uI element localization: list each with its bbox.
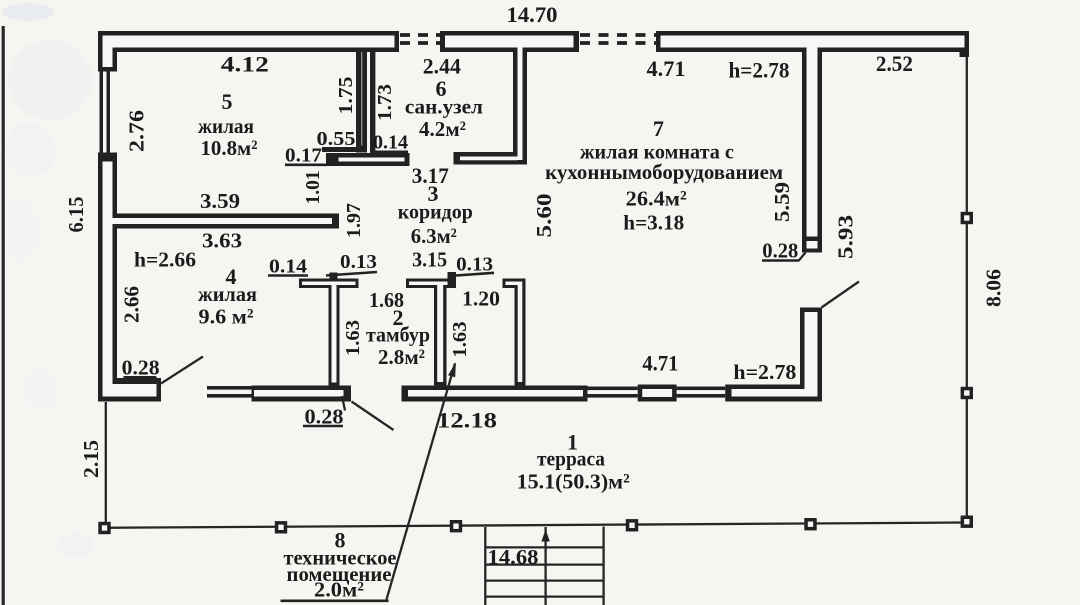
post square bottom 3 <box>450 520 462 532</box>
core: san.uzel right wall <box>518 48 523 161</box>
svg-text:8.06: 8.06 <box>982 269 1006 307</box>
core: right upper cap square <box>807 241 818 249</box>
wall: bottom piece entrance-to-window2 <box>402 386 588 402</box>
wall: left window sill bottom <box>98 153 117 158</box>
terrace: left edge <box>105 402 107 528</box>
wall: tambur right stem <box>434 288 447 386</box>
stairs: up arrow <box>541 530 549 542</box>
svg-text:0.14: 0.14 <box>373 132 408 154</box>
core: tambur right stem <box>437 285 443 382</box>
wall: 0.55 extent line <box>322 147 356 152</box>
underline 0.28 room7 <box>762 259 800 262</box>
svg-text:3.15: 3.15 <box>412 248 447 272</box>
wall: san.uzel bottom-left <box>326 153 410 166</box>
svg-text:сан.узел: сан.узел <box>405 95 483 119</box>
window: left wall glazing outer line <box>100 72 104 153</box>
svg-text:2.0м²: 2.0м² <box>314 578 364 602</box>
svg-text:10.8м²: 10.8м² <box>201 136 258 160</box>
svg-text:h=2.78: h=2.78 <box>729 58 790 83</box>
window: bottom window 2 line b <box>588 394 638 398</box>
scan blue smudge top-left <box>2 3 93 557</box>
wall: left lower <box>98 157 117 402</box>
svg-text:0.55: 0.55 <box>317 128 356 150</box>
post square bottom 2 <box>275 521 287 533</box>
core: right lower wall <box>805 312 818 397</box>
svg-text:5: 5 <box>222 89 233 114</box>
svg-text:0.14: 0.14 <box>269 256 307 278</box>
svg-text:1.01: 1.01 <box>302 171 324 205</box>
svg-text:0.17: 0.17 <box>285 145 322 167</box>
wall: room7 L horizontal bar <box>503 279 526 289</box>
wall: tambur T-bar 2 <box>406 279 456 289</box>
underline 0.14 left <box>268 274 308 277</box>
svg-text:h=3.18: h=3.18 <box>623 211 684 235</box>
svg-text:1.73: 1.73 <box>374 84 396 121</box>
svg-text:14.68: 14.68 <box>488 545 539 569</box>
door swing: room 7 to terrace <box>822 282 860 308</box>
post square bottom 4 <box>626 519 638 531</box>
core: san.uzel bottom-left <box>339 158 405 162</box>
core: san.uzel bottom-right <box>460 157 518 161</box>
post square cores <box>102 525 107 530</box>
svg-text:2.15: 2.15 <box>79 440 103 478</box>
svg-text:0.13: 0.13 <box>340 251 377 273</box>
door swing: entrance <box>352 402 394 431</box>
svg-text:1.63: 1.63 <box>342 320 364 356</box>
svg-text:14.70: 14.70 <box>507 2 558 27</box>
wall: left upper <box>98 31 117 72</box>
svg-text:0.28: 0.28 <box>305 405 344 429</box>
stairs: right edge <box>602 527 604 605</box>
underline 0.13 a <box>326 272 377 276</box>
svg-text:тамбур: тамбур <box>366 323 430 347</box>
core: divider room5/4 <box>113 218 333 224</box>
window: top dashed opening 2 row b <box>580 41 656 45</box>
window: bottom window 1 line b <box>207 394 252 398</box>
svg-text:6.3м²: 6.3м² <box>411 224 457 248</box>
pointer: tick 0.28 room7 <box>799 253 806 261</box>
wall: partition line C (san.uzel side) <box>370 48 375 158</box>
stairs: center rail <box>544 527 546 605</box>
svg-text:h=2.66: h=2.66 <box>134 248 196 272</box>
wall: divider room5/room4 <box>113 214 340 229</box>
svg-text:коридор: коридор <box>398 200 473 224</box>
core: room7 L stem <box>518 285 523 382</box>
terrace: bottom edge <box>105 523 968 528</box>
terrace: right edge <box>966 56 968 523</box>
pointer: tech room arrowhead <box>448 362 456 377</box>
wall: san.uzel right (to room 7) <box>513 48 527 165</box>
stairs: step 1 <box>485 546 603 548</box>
window: top dashed opening 2 row a <box>580 33 656 37</box>
svg-text:кухоннымоборудованием: кухоннымоборудованием <box>545 160 783 184</box>
underline 2.0m2 <box>281 599 389 602</box>
wall: tambur left stem <box>329 288 340 386</box>
post square corner <box>961 516 973 528</box>
wall: bottom piece left of entrance <box>252 386 352 402</box>
svg-text:5.60: 5.60 <box>532 194 556 238</box>
svg-text:4.2м²: 4.2м² <box>419 117 466 141</box>
door swing: room 4 <box>161 357 203 384</box>
svg-text:0.13: 0.13 <box>456 254 493 276</box>
svg-text:2.52: 2.52 <box>876 51 913 76</box>
svg-text:7: 7 <box>653 116 664 141</box>
svg-text:6.15: 6.15 <box>64 197 88 233</box>
wall: san.uzel bottom-right <box>454 152 528 165</box>
rotated labels <box>64 77 1006 479</box>
wall: top piece 2 (san.uzel) <box>440 31 579 52</box>
window: bottom window 3 line b <box>677 394 726 398</box>
svg-text:2.8м²: 2.8м² <box>378 345 425 369</box>
wall: partition bottom cap <box>356 146 367 153</box>
svg-text:2.44: 2.44 <box>423 54 461 79</box>
svg-text:4.71: 4.71 <box>647 56 686 81</box>
wall: bottom piece right <box>725 385 822 402</box>
wall: partition line A (room5 side) <box>356 48 362 153</box>
wall: tambur T-bar 1 <box>299 279 359 289</box>
wall: tambur bar2 top square <box>448 272 457 279</box>
wall: room4 bottom piece <box>98 378 161 402</box>
wall: room7 L stem <box>515 288 526 386</box>
wall: left window sill top <box>98 67 117 72</box>
wall: bottom pillar <box>638 385 677 402</box>
svg-text:жилая: жилая <box>198 282 257 306</box>
wall: top piece 1 (room 5) <box>98 31 399 52</box>
core: room7 L bar <box>506 282 523 286</box>
window: bottom window 3 line a <box>677 387 726 391</box>
svg-text:жилая: жилая <box>198 114 254 138</box>
core: bottom piece right <box>732 389 818 397</box>
wall: partition line B <box>362 48 367 153</box>
wall: top right end stub <box>960 52 970 57</box>
stairs: step 2 <box>485 563 603 565</box>
core: tambur bar1 <box>302 282 356 286</box>
pointer: tech room long diagonal <box>387 364 456 600</box>
svg-text:3.59: 3.59 <box>200 189 240 213</box>
wall: right lower <box>800 308 822 402</box>
window: top dashed opening 1 row a <box>400 33 440 37</box>
svg-text:1.20: 1.20 <box>462 287 500 311</box>
core: top piece 2 <box>445 36 574 48</box>
svg-text:5.59: 5.59 <box>770 182 794 222</box>
svg-text:12.18: 12.18 <box>437 408 497 433</box>
underline 0.14 top <box>372 151 408 154</box>
core: tambur left stem <box>332 285 337 383</box>
underline 0.28 room4 <box>124 376 157 379</box>
window: left wall glazing inner line <box>107 72 111 153</box>
wall: right upper hanging <box>802 48 822 253</box>
svg-text:15.1(50.3)м²: 15.1(50.3)м² <box>517 470 630 494</box>
svg-text:4.71: 4.71 <box>642 351 678 376</box>
svg-text:1.75: 1.75 <box>335 77 357 115</box>
core: tambur bar2 <box>409 282 448 286</box>
wall: tambur bar1 top square <box>330 273 338 279</box>
post square bottom 1 <box>98 522 110 534</box>
pointer: tick 0.28 entrance <box>342 396 345 411</box>
core: left wall lower <box>103 162 113 397</box>
window: top dashed opening 1 row b <box>400 41 440 45</box>
svg-text:0.28: 0.28 <box>762 239 798 263</box>
svg-text:2.66: 2.66 <box>120 286 144 323</box>
svg-text:26.4м²: 26.4м² <box>626 187 687 211</box>
post square right 2 <box>961 387 973 399</box>
core: top piece 1 <box>103 36 395 48</box>
core: bottom piece entrance-to-window2 <box>408 390 583 397</box>
svg-text:3.63: 3.63 <box>202 229 242 253</box>
svg-text:9.6 м²: 9.6 м² <box>199 305 254 329</box>
core: right upper hanging wall <box>807 48 818 237</box>
core: top piece 3 <box>661 36 965 48</box>
core: left wall upper <box>103 36 113 68</box>
wall: top piece 3 (room 7) <box>656 31 969 52</box>
svg-text:1.97: 1.97 <box>343 203 365 238</box>
post square right 1 <box>961 212 973 224</box>
underline 0.28 entrance <box>303 425 343 428</box>
svg-text:5.93: 5.93 <box>834 215 858 259</box>
core: bottom pillar <box>642 389 672 397</box>
core: room4 bottom <box>113 384 157 397</box>
svg-text:0.28: 0.28 <box>122 356 160 380</box>
svg-text:терраса: терраса <box>537 447 605 471</box>
svg-text:1.63: 1.63 <box>449 322 471 358</box>
underline 0.17 <box>285 164 327 167</box>
svg-text:4.12: 4.12 <box>221 52 269 77</box>
svg-text:h=2.78: h=2.78 <box>733 360 796 384</box>
page edge line <box>2 26 5 605</box>
core: bottom piece left of entrance <box>254 390 344 397</box>
pointer: tick 0.28 room4 <box>156 377 158 384</box>
stairs: step 3 <box>485 579 603 581</box>
svg-text:2.76: 2.76 <box>125 110 149 152</box>
stairs: step 4 <box>485 595 603 597</box>
underline 0.13 b <box>456 273 494 276</box>
post square bottom 5 <box>804 518 816 530</box>
window: bottom window 1 line a <box>207 386 252 390</box>
stairs: left edge <box>484 527 486 605</box>
window: bottom window 2 line a <box>588 387 638 391</box>
